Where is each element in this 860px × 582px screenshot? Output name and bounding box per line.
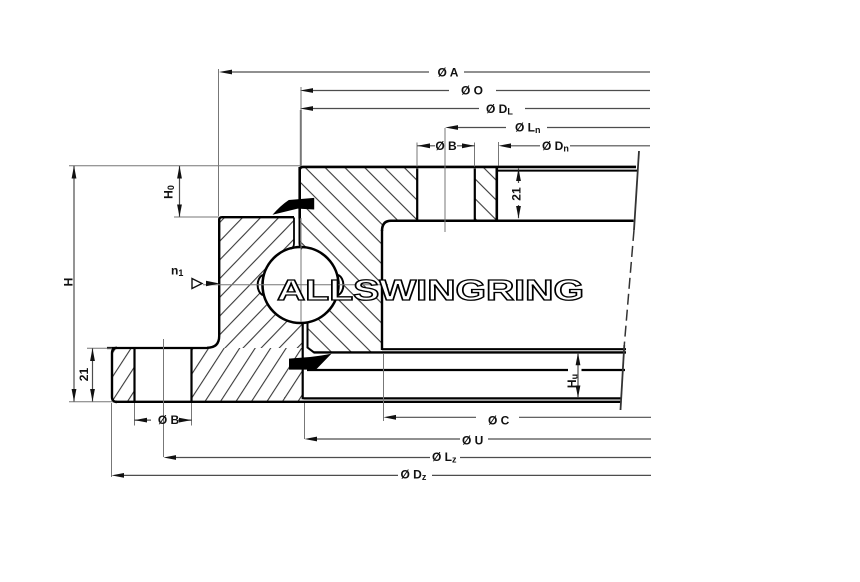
raceway shoulder bump left xyxy=(257,275,270,295)
dimension line H xyxy=(73,166,75,402)
top bolt hole xyxy=(418,168,474,220)
n1 open triangle xyxy=(192,279,202,289)
thin chamfer line right part xyxy=(497,170,637,172)
left edge + fillet to flange xyxy=(207,219,219,348)
dimension line ØDz xyxy=(124,474,651,476)
extension line ØA at x219 xyxy=(218,69,220,216)
dimension line ØLn xyxy=(458,127,650,129)
inner ring outline xyxy=(300,167,637,399)
ball horizontal centreline xyxy=(203,284,388,286)
dimension line Hu xyxy=(577,353,579,398)
centreline bottom bolt hole xyxy=(163,339,165,457)
flange bottom face + fillet xyxy=(382,221,634,231)
dimension arrows xyxy=(72,70,581,478)
svg-text:Ø C: Ø C xyxy=(488,414,510,428)
extension / centre lines xyxy=(69,69,499,477)
svg-text:Ø U: Ø U xyxy=(462,434,483,448)
inner ring (right, top-flanged) hatched section xyxy=(300,168,418,352)
recess white region xyxy=(383,222,633,349)
upper seal xyxy=(273,198,315,215)
dimension line ØDL xyxy=(313,108,650,110)
bottom bolt hole xyxy=(135,348,191,401)
dimension line ØC xyxy=(396,416,651,418)
svg-text:H: H xyxy=(62,278,76,287)
raceway shoulder bump right xyxy=(331,275,344,295)
centreline top bolt hole xyxy=(444,128,446,232)
inner ring section piece right of top bolt hole xyxy=(475,168,497,221)
dimension line ØB bottom xyxy=(134,419,192,421)
gap lines above ball xyxy=(291,218,294,249)
dimension line ØA xyxy=(232,71,650,73)
dimension line ØB top xyxy=(417,145,475,147)
watermark xyxy=(277,274,584,306)
svg-text:21: 21 xyxy=(77,368,91,382)
arrowheads for all dimensions xyxy=(219,70,232,75)
svg-text:Ø B: Ø B xyxy=(435,139,457,153)
dimension labels xyxy=(62,66,580,483)
top face (section + elevation) xyxy=(300,167,636,170)
gap strip below ball xyxy=(303,321,308,352)
extension line ØO/ØDL at x301 xyxy=(300,87,302,110)
svg-text:Ø B: Ø B xyxy=(158,413,180,427)
gap strip above ball xyxy=(294,218,300,249)
ball vertical centreline xyxy=(300,218,302,322)
dimension line 21 right xyxy=(518,169,520,219)
outer ring (left, bottom-flanged) hatched section xyxy=(207,217,303,349)
outer ring outline xyxy=(107,217,621,402)
top hole edges xyxy=(416,169,418,221)
dimension line ØDn xyxy=(511,145,650,147)
ball xyxy=(263,247,339,323)
dimension line ØO xyxy=(313,90,650,92)
gap lines below ball xyxy=(308,323,314,353)
outer ring right edge below ball xyxy=(302,322,304,399)
svg-text:21: 21 xyxy=(510,187,524,201)
recess bottom line xyxy=(382,348,626,350)
dimension lines xyxy=(74,72,651,475)
lower elevation line 2 xyxy=(304,397,622,399)
bottom hole edges xyxy=(133,349,135,402)
dimension line 21 left xyxy=(92,348,94,401)
lower elevation line (gapped at Hu) xyxy=(307,369,625,371)
flange left edge rounded xyxy=(112,348,117,402)
lower seal xyxy=(289,354,332,370)
dimension line ØLz xyxy=(176,457,651,459)
dimension line H0 xyxy=(179,166,181,217)
svg-text:Ø A: Ø A xyxy=(438,66,459,80)
flange bottom face xyxy=(115,401,621,403)
section piece right edge xyxy=(495,168,498,221)
break line xyxy=(634,151,639,230)
inner ring bottom face xyxy=(314,351,627,353)
inner ring left edge xyxy=(298,167,301,219)
top face outer ring xyxy=(219,217,294,220)
svg-text:Ø O: Ø O xyxy=(461,84,483,98)
flange top face xyxy=(107,347,207,349)
recess left edge xyxy=(381,230,383,350)
svg-text:ALLSWINGRING: ALLSWINGRING xyxy=(277,274,584,306)
dimension line ØU xyxy=(317,438,651,440)
